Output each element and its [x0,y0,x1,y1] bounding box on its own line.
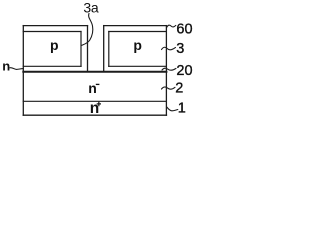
superscript plus of n+ [97,103,101,105]
svg-text:20: 20 [176,63,192,79]
leader to label 1 [167,107,178,111]
leader curve from label 3a into trench [81,14,92,46]
svg-text:n: n [88,80,97,96]
p region 3 inner sidewall right [108,32,110,67]
top of n layer 20, right segment [109,65,167,67]
boundary 60/3, right box inner top [109,31,167,33]
svg-text:2: 2 [175,81,183,97]
svg-text:n: n [2,59,10,74]
svg-text:3: 3 [176,41,184,57]
top of n layer 20, left segment [23,65,81,67]
top line of layer 60, right box [104,25,167,27]
p region 3 inner sidewall left [80,32,82,67]
tilde leader to label 60 [167,25,176,27]
tilde leader to label 2 [162,87,176,89]
superscript minus of n- [96,83,100,85]
boundary n-/n+ (layer 2 over layer 1) [23,100,166,102]
right edge vertical of structure [165,26,167,116]
trench 3a outer sidewall left [87,26,89,72]
tilde leader to label 3 [162,47,176,49]
svg-text:p: p [133,37,142,53]
svg-text:n: n [90,100,99,117]
trench 3a outer sidewall right [103,26,105,72]
boundary 60/3, left box inner top [23,31,81,33]
svg-text:3a: 3a [83,0,98,16]
svg-text:60: 60 [176,22,192,38]
left edge vertical of structure [22,26,24,116]
svg-text:p: p [50,37,59,53]
leader from label n to layer 20 [10,68,23,70]
tilde leader to label 20 [162,68,176,70]
svg-text:1: 1 [178,101,186,117]
thick boundary top of n- layer 2 [23,71,166,73]
top line of layer 60, left box [23,25,87,27]
bottom edge of n+ substrate 1 [23,114,166,116]
